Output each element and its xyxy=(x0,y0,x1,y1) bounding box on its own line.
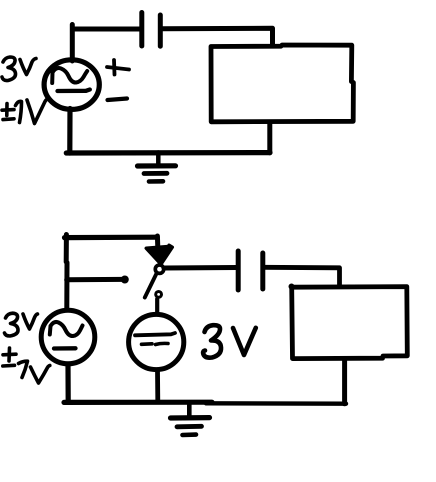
bottom rail wire (right part) xyxy=(206,401,346,406)
wire: box2 bottom to bottom rail xyxy=(342,359,347,404)
AC source V2 xyxy=(41,310,95,364)
wire: C2 to box2 top xyxy=(263,267,340,285)
minus label xyxy=(108,99,128,101)
wire: box bottom to bottom rail xyxy=(267,122,272,153)
wire: pivot to capacitor C2 xyxy=(164,265,237,271)
throw wire end dot xyxy=(121,276,129,284)
plus label xyxy=(107,67,129,70)
switch throw terminal node xyxy=(156,292,162,298)
switch arrow (actuator) xyxy=(146,245,172,264)
label ±1V (top source) xyxy=(2,99,49,124)
label 3V (top source) xyxy=(2,57,36,81)
wire: source V1 top to top rail xyxy=(72,25,141,62)
AC source V1 xyxy=(44,60,99,110)
capacitor C1 right plate xyxy=(158,15,163,46)
capacitor C2 left plate xyxy=(236,251,241,290)
capacitor C2 right plate xyxy=(260,253,265,289)
switch pivot node xyxy=(155,265,163,273)
left rail: V2 top to top rail xyxy=(64,235,70,309)
bottom rail wire top circuit xyxy=(66,150,270,156)
box2 corner dot xyxy=(289,284,295,290)
top rail wire bottom circuit xyxy=(65,235,158,241)
label 3v (bottom source) xyxy=(5,313,38,336)
V1 offset bar xyxy=(58,90,90,92)
label 3V (DC source) xyxy=(203,325,256,358)
stub from top rail to switch arrow xyxy=(155,236,160,248)
bottom rail wire (left part) xyxy=(64,400,212,405)
label ±1v (bottom source) xyxy=(3,348,50,383)
V1 sine wave xyxy=(52,68,87,83)
switch blade xyxy=(145,274,157,298)
wire: C1 to box top xyxy=(161,28,273,45)
ground GND1 xyxy=(156,153,161,166)
V2 offset bar xyxy=(54,346,76,351)
box2 (load) bottom circuit xyxy=(292,287,408,359)
throw wire from left rail xyxy=(67,277,123,282)
ground GND2 xyxy=(187,403,192,418)
V3 solid line xyxy=(135,333,175,335)
capacitor C1 left plate xyxy=(139,13,144,47)
V3 dashed line xyxy=(142,342,153,346)
DC source V3 xyxy=(129,314,184,369)
V2 sine wave xyxy=(50,322,83,336)
V2 bottom stub xyxy=(65,364,70,402)
stub: terminal to DC source V3 xyxy=(155,299,159,313)
box (load) top circuit xyxy=(211,45,353,122)
V3 bottom stub xyxy=(155,370,160,402)
wire: source V1 bottom xyxy=(67,109,72,154)
